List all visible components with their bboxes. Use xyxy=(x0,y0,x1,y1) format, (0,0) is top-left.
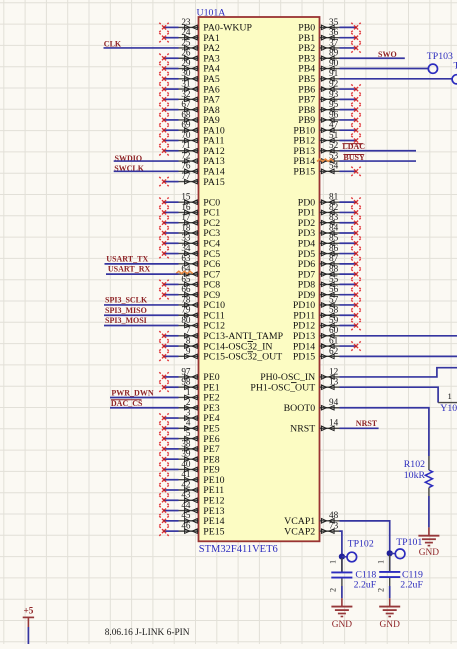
wire PB5 to TP104 xyxy=(340,78,453,80)
pin PD11 (58) xyxy=(293,305,360,322)
wire SWO xyxy=(340,57,405,59)
pin PE14 (45) xyxy=(159,510,224,527)
svg-text:9: 9 xyxy=(186,346,191,356)
wire VCAP1 xyxy=(340,521,390,572)
pin PD9 (56) xyxy=(298,284,361,301)
svg-text:84: 84 xyxy=(329,222,339,232)
pin PD13 (60) xyxy=(293,325,340,342)
svg-text:TP102: TP102 xyxy=(348,538,374,549)
svg-text:54: 54 xyxy=(329,161,339,171)
svg-text:SPI3_MISO: SPI3_MISO xyxy=(105,306,147,315)
svg-text:1: 1 xyxy=(448,391,452,401)
pin PB8 (95) xyxy=(298,99,360,116)
svg-text:8.06.16 J-LINK 6-PIN: 8.06.16 J-LINK 6-PIN xyxy=(105,628,190,638)
test point TP102 xyxy=(347,538,374,562)
pin NRST (14) xyxy=(290,418,339,435)
pin PB1 (36) xyxy=(298,27,360,44)
svg-text:39: 39 xyxy=(181,449,191,459)
svg-text:46: 46 xyxy=(181,521,191,531)
svg-text:92: 92 xyxy=(329,78,339,88)
svg-text:78: 78 xyxy=(181,294,191,304)
svg-text:24: 24 xyxy=(181,27,191,37)
svg-text:12: 12 xyxy=(329,366,339,376)
pin PC4 (33) xyxy=(159,233,220,250)
svg-text:PE15: PE15 xyxy=(203,526,224,537)
svg-text:16: 16 xyxy=(181,202,191,212)
pin PD2 (83) xyxy=(298,212,361,229)
svg-text:13: 13 xyxy=(329,377,339,387)
pin PD8 (55) xyxy=(298,274,361,291)
designator U101A xyxy=(197,7,226,18)
pin PC1 (16) xyxy=(159,202,220,219)
pin BOOT0 (94) xyxy=(284,397,340,414)
svg-text:65: 65 xyxy=(181,274,191,284)
pin PB13 (52) xyxy=(293,140,339,157)
svg-text:U101A: U101A xyxy=(197,7,226,18)
wire junction to TP101 xyxy=(390,552,396,554)
svg-text:98: 98 xyxy=(181,377,191,387)
wire PD15 xyxy=(340,355,457,357)
wire R102 to GND xyxy=(428,496,430,527)
svg-text:95: 95 xyxy=(329,99,339,109)
pin PD1 (82) xyxy=(298,202,361,219)
pin PH1-OSC_OUT (13) xyxy=(250,377,339,394)
wire VCAP2 xyxy=(340,531,342,572)
svg-text:30: 30 xyxy=(181,68,191,78)
svg-text:GND: GND xyxy=(419,548,440,558)
pin PE4 (3) xyxy=(159,407,219,424)
svg-text:48: 48 xyxy=(329,510,339,520)
resistor R102 10kR xyxy=(404,456,433,496)
junction TP102 node xyxy=(339,554,345,560)
svg-text:PB15: PB15 xyxy=(293,167,315,178)
svg-text:73: 73 xyxy=(329,521,339,531)
net label DAC_CS xyxy=(111,399,143,408)
svg-text:96: 96 xyxy=(329,109,339,119)
test point TP101 xyxy=(395,537,422,559)
pin PB3 (89) xyxy=(298,48,339,65)
svg-text:2: 2 xyxy=(377,588,386,592)
pin PB5 (91) xyxy=(298,68,339,85)
net label CLK xyxy=(104,39,122,48)
svg-text:87: 87 xyxy=(329,253,339,263)
svg-text:67: 67 xyxy=(181,99,191,109)
pin PA9 (68) xyxy=(159,109,220,126)
pin PA5 (30) xyxy=(159,68,220,85)
svg-text:TP103: TP103 xyxy=(427,51,453,62)
svg-text:4: 4 xyxy=(186,418,191,428)
pin PA4 (29) xyxy=(159,58,220,75)
svg-text:GND: GND xyxy=(380,620,401,630)
svg-text:31: 31 xyxy=(181,78,191,88)
crystal Y101 (clipped) pin 1 xyxy=(438,391,457,414)
net label PWR_DWN xyxy=(111,389,153,398)
svg-text:66: 66 xyxy=(181,284,191,294)
IC U101A component body STM32F411VET6 xyxy=(199,17,320,541)
pin PE11 (42) xyxy=(159,479,224,496)
svg-text:15: 15 xyxy=(181,192,191,202)
wire SWDIO xyxy=(114,160,179,162)
wire USART_TX xyxy=(105,263,179,265)
pin PA1 (24) xyxy=(159,27,220,44)
net label SPI3_MISO xyxy=(105,306,147,315)
wire NRST xyxy=(340,427,379,429)
net label SPI3_MOSI xyxy=(105,316,147,325)
svg-text:61: 61 xyxy=(329,335,339,345)
svg-text:47: 47 xyxy=(329,120,339,130)
pin PC0 (15) xyxy=(159,192,220,209)
svg-text:88: 88 xyxy=(329,264,339,274)
pin PE5 (4) xyxy=(159,418,219,435)
pin PC14-OSC32_IN (8) xyxy=(159,335,272,352)
svg-text:83: 83 xyxy=(329,212,339,222)
net label SWDIO xyxy=(115,154,143,163)
pin PC5 (34) xyxy=(159,243,220,260)
svg-text:+5: +5 xyxy=(23,606,33,616)
net label SWCLK xyxy=(114,164,145,173)
svg-text:77: 77 xyxy=(181,171,191,181)
svg-text:SPI3_SCLK: SPI3_SCLK xyxy=(105,296,148,305)
svg-text:BOOT0: BOOT0 xyxy=(284,403,316,414)
svg-text:86: 86 xyxy=(329,243,339,253)
pin PA0-WKUP (23) xyxy=(159,17,252,34)
svg-text:60: 60 xyxy=(329,325,339,335)
svg-text:18: 18 xyxy=(181,222,191,232)
svg-text:80: 80 xyxy=(181,315,191,325)
pin PB12 (51) xyxy=(293,130,360,147)
pin PE2 (1) xyxy=(179,387,220,404)
svg-text:41: 41 xyxy=(181,469,191,479)
pin PE12 (43) xyxy=(159,490,224,507)
svg-text:3: 3 xyxy=(186,407,191,417)
wire LDAC xyxy=(340,150,417,152)
pin PE8 (39) xyxy=(159,449,219,466)
svg-text:43: 43 xyxy=(181,490,191,500)
svg-text:SPI3_MOSI: SPI3_MOSI xyxy=(105,316,147,325)
ground GND (R102) xyxy=(418,527,439,558)
pin PB6 (92) xyxy=(298,78,360,95)
svg-text:36: 36 xyxy=(329,27,339,37)
pin PC9 (66) xyxy=(159,284,220,301)
wire C119 to GND xyxy=(389,586,391,598)
pin PA3 (26) xyxy=(159,48,220,65)
pin PC10 (78) xyxy=(179,294,226,311)
pin PB9 (96) xyxy=(298,109,360,126)
svg-text:23: 23 xyxy=(181,17,191,27)
svg-text:VCAP2: VCAP2 xyxy=(284,526,315,537)
wire DAC_CS xyxy=(110,407,179,409)
svg-text:72: 72 xyxy=(181,150,191,160)
svg-text:17: 17 xyxy=(181,212,191,222)
svg-text:2.2uF: 2.2uF xyxy=(400,579,423,590)
pin PD4 (85) xyxy=(298,233,361,250)
svg-text:93: 93 xyxy=(329,89,339,99)
wire BUSY xyxy=(340,160,417,162)
pin PA10 (69) xyxy=(159,120,225,137)
pin PA6 (31) xyxy=(159,78,220,95)
pin PB10 (47) xyxy=(293,120,360,137)
svg-text:NRST: NRST xyxy=(290,424,315,435)
pin PC7 (64) xyxy=(176,264,220,281)
pin PD12 (59) xyxy=(293,315,361,332)
junction TP101 node xyxy=(387,550,393,556)
pin PA11 (70) xyxy=(159,130,224,147)
pin PC15-OSC32_OUT (9) xyxy=(159,346,282,363)
pin PD0 (81) xyxy=(298,192,361,209)
svg-text:8: 8 xyxy=(186,335,191,345)
svg-text:PC15-OSC32_OUT: PC15-OSC32_OUT xyxy=(203,352,282,363)
svg-text:10kR: 10kR xyxy=(404,470,426,481)
svg-text:GND: GND xyxy=(332,620,353,630)
svg-text:R102: R102 xyxy=(404,459,425,470)
net label USART_RX xyxy=(108,265,151,274)
svg-text:2.2uF: 2.2uF xyxy=(354,579,377,590)
svg-text:1: 1 xyxy=(186,387,191,397)
net label LDAC xyxy=(342,142,365,151)
pin PC11 (79) xyxy=(179,305,225,322)
capacitor C118 2.2uF xyxy=(331,558,376,590)
pin PE0 (97) xyxy=(159,366,219,383)
svg-text:5: 5 xyxy=(186,428,191,438)
test point TP103 xyxy=(427,51,453,73)
svg-text:STM32F411VET6: STM32F411VET6 xyxy=(199,544,278,555)
wire +5 down xyxy=(27,627,29,644)
pin PA8 (67) xyxy=(159,99,220,116)
svg-text:14: 14 xyxy=(329,418,339,428)
svg-text:PWR_DWN: PWR_DWN xyxy=(111,389,153,398)
svg-text:32: 32 xyxy=(181,89,191,99)
wire PH0-OSC_IN to Y101 xyxy=(340,368,457,377)
svg-text:33: 33 xyxy=(181,233,191,243)
ground GND (C118) xyxy=(331,598,352,630)
svg-text:37: 37 xyxy=(329,37,339,47)
svg-text:42: 42 xyxy=(181,479,191,489)
ground GND (C119) xyxy=(379,598,400,630)
svg-text:2: 2 xyxy=(186,397,191,407)
svg-text:TP101: TP101 xyxy=(396,537,422,548)
svg-text:TP: TP xyxy=(454,60,457,71)
svg-text:71: 71 xyxy=(181,140,191,150)
pin VCAP1 (48) xyxy=(284,510,339,527)
pin PD10 (57) xyxy=(293,294,361,311)
pin PA15 (77) xyxy=(159,171,225,188)
net label USART_TX xyxy=(106,254,148,263)
note 8.06.16 J-LINK 6-PIN xyxy=(105,628,190,638)
wire PD13 xyxy=(340,335,457,337)
svg-text:91: 91 xyxy=(329,68,339,78)
wire SWCLK xyxy=(114,170,179,172)
svg-text:PD15: PD15 xyxy=(293,352,315,363)
pin PB7 (93) xyxy=(298,89,360,106)
wire PWR_DWN xyxy=(110,396,179,398)
svg-text:Y101: Y101 xyxy=(440,403,457,414)
wire C118 to GND xyxy=(341,586,343,598)
svg-text:69: 69 xyxy=(181,120,191,130)
svg-text:68: 68 xyxy=(181,109,191,119)
svg-text:DAC_CS: DAC_CS xyxy=(111,399,143,408)
svg-text:62: 62 xyxy=(329,346,339,356)
wire SPI3_MISO xyxy=(104,314,179,316)
wire USART_RX xyxy=(106,273,179,275)
svg-text:35: 35 xyxy=(329,17,339,27)
pin PA7 (32) xyxy=(159,89,220,106)
pin PC8 (65) xyxy=(159,274,220,291)
svg-text:58: 58 xyxy=(329,305,339,315)
svg-text:CLK: CLK xyxy=(104,39,122,48)
svg-text:26: 26 xyxy=(181,48,191,58)
wire CLK xyxy=(104,47,179,49)
pin PD7 (88) xyxy=(298,264,361,281)
pin PD6 (87) xyxy=(298,253,361,270)
pin number 2 (C119) xyxy=(377,588,386,592)
pin PD14 (61) xyxy=(293,335,361,352)
pin PB14 (53) xyxy=(293,150,339,167)
svg-text:97: 97 xyxy=(181,366,191,376)
svg-text:90: 90 xyxy=(329,58,339,68)
pin PC2 (17) xyxy=(159,212,220,229)
svg-text:1: 1 xyxy=(329,560,338,564)
svg-text:38: 38 xyxy=(181,438,191,448)
svg-text:40: 40 xyxy=(181,459,191,469)
pin PE9 (40) xyxy=(159,459,219,476)
power port +5 xyxy=(23,606,34,628)
svg-text:2: 2 xyxy=(329,588,338,592)
pin PD3 (84) xyxy=(298,222,361,239)
test point TP104 (clipped) xyxy=(452,60,457,84)
svg-text:63: 63 xyxy=(181,253,191,263)
wire SPI3_MOSI xyxy=(104,325,179,327)
svg-text:PA15: PA15 xyxy=(203,177,225,188)
pin PB0 (35) xyxy=(298,17,360,34)
pin PE1 (98) xyxy=(159,377,219,394)
pin number 1 (C119) xyxy=(377,560,386,564)
svg-text:USART_RX: USART_RX xyxy=(108,265,151,274)
wire junction to TP102 xyxy=(342,556,347,558)
svg-text:76: 76 xyxy=(181,161,191,171)
svg-text:57: 57 xyxy=(329,294,339,304)
pin PE6 (5) xyxy=(159,428,219,445)
pin PD15 (62) xyxy=(293,346,340,363)
net label NRST xyxy=(356,419,378,428)
svg-text:82: 82 xyxy=(329,202,339,212)
svg-text:79: 79 xyxy=(181,305,191,315)
svg-text:NRST: NRST xyxy=(356,419,378,428)
pin PC6 (63) xyxy=(179,253,221,270)
pin PE10 (41) xyxy=(159,469,224,486)
svg-text:94: 94 xyxy=(329,397,339,407)
svg-text:51: 51 xyxy=(329,130,339,140)
svg-text:85: 85 xyxy=(329,233,339,243)
wire PH1-OSC_OUT to Y101 xyxy=(340,387,439,402)
net label SWO xyxy=(378,50,397,59)
svg-text:55: 55 xyxy=(329,274,339,284)
wire SPI3_SCLK xyxy=(104,304,179,306)
svg-text:56: 56 xyxy=(329,284,339,294)
svg-text:81: 81 xyxy=(329,192,339,202)
svg-text:1: 1 xyxy=(377,560,386,564)
pin PE7 (38) xyxy=(159,438,219,455)
pin VCAP2 (73) xyxy=(284,521,339,538)
pin PE3 (2) xyxy=(179,397,220,414)
pin PD5 (86) xyxy=(298,243,361,260)
wire BOOT0 to R102 xyxy=(340,408,429,456)
svg-text:34: 34 xyxy=(181,243,191,253)
net label BUSY xyxy=(343,153,365,162)
pin PE15 (46) xyxy=(159,521,224,538)
pin PA2 (25) xyxy=(179,37,220,54)
pin PC13-ANTI_TAMP (7) xyxy=(159,325,283,342)
pin PB2 (37) xyxy=(298,37,360,54)
svg-text:7: 7 xyxy=(186,325,191,335)
svg-text:52: 52 xyxy=(329,140,339,150)
svg-text:45: 45 xyxy=(181,510,191,520)
svg-text:29: 29 xyxy=(181,58,191,68)
pin PB15 (54) xyxy=(293,161,360,178)
pin PE13 (44) xyxy=(159,500,224,517)
svg-text:PH1-OSC_OUT: PH1-OSC_OUT xyxy=(250,382,315,393)
capacitor C119 2.2uF xyxy=(379,555,423,590)
pin PA14 (76) xyxy=(179,161,225,178)
pin PA13 (72) xyxy=(179,150,225,167)
svg-text:25: 25 xyxy=(181,37,191,47)
svg-text:59: 59 xyxy=(329,315,339,325)
svg-text:70: 70 xyxy=(181,130,191,140)
pin PH0-OSC_IN (12) xyxy=(260,366,339,383)
wire PB4 to TP103 xyxy=(340,68,429,70)
value label STM32F411VET6 xyxy=(199,544,278,555)
svg-text:USART_TX: USART_TX xyxy=(106,254,148,263)
svg-text:44: 44 xyxy=(181,500,191,510)
net label SPI3_SCLK xyxy=(105,296,148,305)
svg-text:89: 89 xyxy=(329,48,339,58)
pin PB4 (90) xyxy=(298,58,339,75)
pin PC12 (80) xyxy=(179,315,226,332)
pin number 2 (C118) xyxy=(329,588,338,592)
pin number 1 (C118) xyxy=(329,560,338,564)
pin PC3 (18) xyxy=(159,222,220,239)
pin PA12 (71) xyxy=(159,140,225,157)
